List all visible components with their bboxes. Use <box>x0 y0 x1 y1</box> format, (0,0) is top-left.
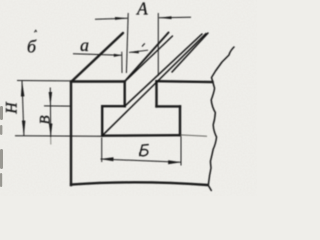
left edge <box>70 82 72 186</box>
cavity left wall <box>101 106 103 136</box>
top edge left part <box>71 80 125 82</box>
cavity bottom <box>102 134 180 137</box>
arrow right <box>168 160 181 164</box>
top extension line (ledge level) <box>44 105 70 107</box>
dimension line with right arrow <box>73 54 121 56</box>
cavity right wall <box>179 106 181 135</box>
small caret accent above б <box>34 30 36 32</box>
dimension line <box>22 81 24 136</box>
right ledge of T-slot <box>157 105 181 107</box>
paper grain <box>0 0 1 1</box>
dimension line <box>101 159 182 162</box>
arrow left <box>100 157 113 161</box>
lower arrow pointing down to bottom line <box>49 124 53 138</box>
small opposing arrow right of extension line <box>129 50 148 52</box>
extension line for a <box>121 52 123 73</box>
slot opening left wall <box>123 82 125 107</box>
upper arrow pointing down to ledge line <box>49 92 52 106</box>
receding edge from left ledge corner <box>125 34 202 106</box>
long receding edge from cavity bottom-left corner <box>102 34 206 136</box>
extension line right <box>180 137 182 166</box>
thick receding edge from outer top-left corner <box>72 33 123 81</box>
arrow down <box>22 121 26 136</box>
dimension line <box>49 88 51 138</box>
left ledge of T-slot <box>102 105 125 107</box>
top extension line <box>17 80 70 82</box>
receding edge segment near break <box>172 33 208 72</box>
dimension line left tail with arrow <box>95 18 127 19</box>
bottom extension line (runs to cavity bottom) <box>15 135 102 137</box>
extension line left <box>101 138 103 163</box>
slot opening right wall <box>155 81 157 106</box>
svg-text:В: В <box>37 115 53 124</box>
svg-text:Н: Н <box>4 102 21 115</box>
faint slot-bottom line continuing to break <box>180 135 207 136</box>
small tick mark <box>142 43 145 46</box>
dim line light continuation below bottom ext <box>50 138 52 145</box>
extension line right <box>157 13 159 76</box>
thin receding edge pair partner (near opening) <box>128 36 173 79</box>
paper background <box>0 0 257 196</box>
arrow up <box>21 81 25 97</box>
svg-text:б: б <box>27 36 37 56</box>
svg-text:а: а <box>80 35 89 55</box>
top edge right part <box>157 80 213 83</box>
receding edge from opening-left top corner <box>125 33 169 82</box>
bottom edge (slight scan bow) <box>71 182 208 185</box>
dimension line right tail with arrow <box>159 16 191 19</box>
label Б <box>140 145 149 156</box>
extension line left <box>126 13 128 73</box>
svg-text:А: А <box>136 0 148 19</box>
scan gutter smudges left edge <box>0 106 3 187</box>
